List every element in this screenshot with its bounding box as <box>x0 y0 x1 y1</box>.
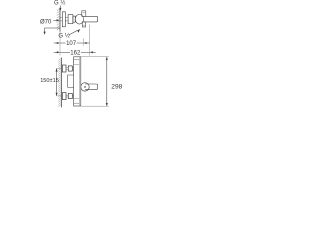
svg-text:Ø70: Ø70 <box>40 20 52 26</box>
svg-text:150±15: 150±15 <box>40 78 59 84</box>
bottom outlet stub G1/2 <box>82 22 85 27</box>
union nut <box>68 15 73 24</box>
dimension 107 (outside arrows) <box>54 42 57 44</box>
bottom connection: union nut <box>68 93 72 98</box>
bottom connection: pipe <box>66 95 68 97</box>
bottom connection: escutcheon <box>62 93 66 100</box>
escutcheon (side) <box>62 12 65 27</box>
diverter knob (plan, circle) <box>81 83 89 91</box>
O70 leader arrow <box>53 19 56 21</box>
spout (side) <box>84 16 98 22</box>
spout (plan) with rounded tip <box>85 84 98 89</box>
extension line (spout reach) <box>89 25 91 56</box>
wall line <box>61 58 63 108</box>
top connection: escutcheon <box>62 65 66 72</box>
top connection: pipe <box>66 68 68 70</box>
dimension 298 <box>106 57 108 106</box>
svg-text:107: 107 <box>66 41 77 47</box>
inlet pipe stubs <box>60 17 62 21</box>
spout mounting notch (left of body) <box>68 75 74 87</box>
body (plan, 298 long) <box>74 57 81 106</box>
svg-text:G ½: G ½ <box>54 0 65 7</box>
top connection: neck pipe <box>72 68 73 70</box>
top connection: union nut <box>68 66 72 71</box>
leader arrow down to wall connection <box>59 5 61 9</box>
dimension 150±15 <box>56 68 58 96</box>
pipe between escutcheon and nut <box>65 17 68 21</box>
leader arrow to bottom stub <box>69 30 79 35</box>
wall plane leader arrow <box>45 28 61 33</box>
svg-text:298: 298 <box>111 84 122 91</box>
diverter stub on top of spout <box>82 11 86 16</box>
knob (temperature handle, side) <box>75 14 83 24</box>
wall section line <box>59 8 61 32</box>
bottom connection: neck pipe <box>72 95 73 97</box>
dimension 162 (outside arrows) <box>54 51 57 53</box>
svg-text:162: 162 <box>70 51 81 57</box>
wall hatching <box>58 58 61 106</box>
neck <box>73 16 75 22</box>
extension line (wall face, below wall) <box>59 32 61 56</box>
wall hatching <box>57 9 60 30</box>
extension line (outlet centre) <box>82 39 84 46</box>
